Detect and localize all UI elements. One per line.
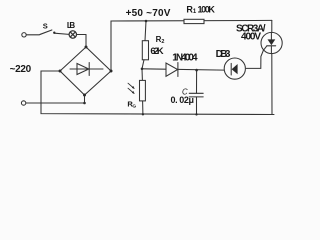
svg-text:1N4004: 1N4004 bbox=[172, 53, 198, 64]
svg-text:0. 02μ: 0. 02μ bbox=[171, 95, 195, 105]
svg-text:+50 ~70V: +50 ~70V bbox=[126, 8, 171, 19]
svg-text:400V: 400V bbox=[241, 31, 261, 42]
svg-text:DB3: DB3 bbox=[216, 49, 231, 60]
svg-text:~220: ~220 bbox=[10, 64, 32, 75]
svg-text:LB: LB bbox=[67, 21, 75, 30]
svg-text:62K: 62K bbox=[150, 46, 163, 56]
svg-text:S: S bbox=[43, 22, 48, 31]
svg-text:R1100K: R1100K bbox=[186, 4, 215, 15]
